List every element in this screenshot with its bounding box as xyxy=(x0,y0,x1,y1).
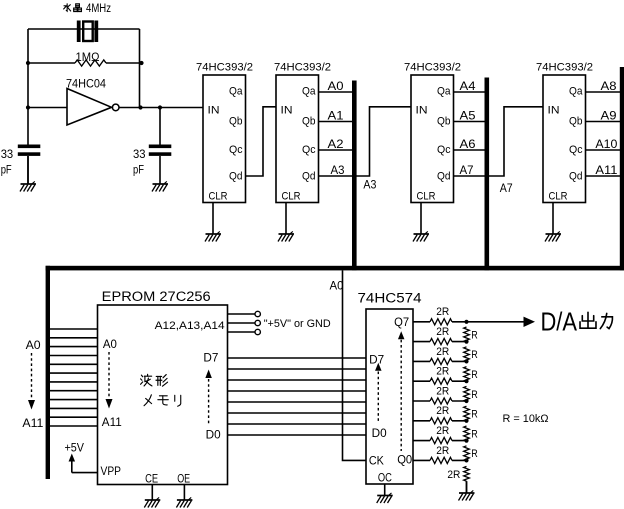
svg-text:Qd: Qd xyxy=(437,170,451,182)
resistor R-6 vertical xyxy=(464,347,470,362)
svg-text:R = 10kΩ: R = 10kΩ xyxy=(503,413,549,425)
wire A12 stub with terminal xyxy=(228,311,261,316)
svg-text:74HC574: 74HC574 xyxy=(358,291,423,306)
wire Q1 to ladder xyxy=(413,440,467,442)
svg-text:CLR: CLR xyxy=(549,191,568,203)
resistor 2R-4 xyxy=(430,378,452,384)
wire A9 U4 Qb to bus xyxy=(586,121,622,123)
svg-text:R: R xyxy=(471,349,478,361)
svg-text:CLR: CLR xyxy=(417,191,436,203)
label メモリ memory xyxy=(144,395,181,406)
arrow D/A output xyxy=(524,317,536,327)
wire A13 stub with terminal xyxy=(228,320,261,325)
svg-text:Q7: Q7 xyxy=(394,317,409,329)
ground counter U2 CLR xyxy=(278,203,294,242)
wire A14 stub with terminal xyxy=(228,329,261,334)
svg-text:A1: A1 xyxy=(328,111,344,123)
svg-text:+5V: +5V xyxy=(65,443,85,455)
wire VPP supply xyxy=(72,472,98,474)
resistor R-3 vertical xyxy=(464,406,470,421)
svg-text:2R: 2R xyxy=(436,326,449,338)
bus bar vertical right A8-A11 xyxy=(620,67,624,270)
svg-text:IN: IN xyxy=(281,105,293,117)
resistor R1 1M ohm xyxy=(75,60,106,66)
wire Q2 to ladder xyxy=(413,420,467,422)
node ladder 1 xyxy=(464,439,468,443)
svg-text:Q0: Q0 xyxy=(397,454,412,466)
svg-text:74HC393/2: 74HC393/2 xyxy=(196,62,253,74)
node ladder 0 xyxy=(464,458,468,462)
wire output branch down xyxy=(159,108,161,146)
svg-text:Qa: Qa xyxy=(229,85,243,97)
svg-text:EPROM 27C256: EPROM 27C256 xyxy=(102,289,211,304)
svg-text:R: R xyxy=(471,409,478,421)
svg-text:Qd: Qd xyxy=(229,170,243,182)
svg-text:Qc: Qc xyxy=(437,144,451,156)
svg-text:R: R xyxy=(471,369,478,381)
svg-text:1MΩ: 1MΩ xyxy=(76,52,100,64)
node junction inverter input xyxy=(26,105,30,109)
wire oscillator top loop xyxy=(28,28,140,30)
arrow A0-A11 EPROM inside xyxy=(106,352,113,409)
svg-text:CE: CE xyxy=(145,474,158,486)
op-amp U2 inverter 74HC04 xyxy=(67,89,119,126)
bus bar vertical 2 A4-A7 xyxy=(485,78,490,271)
svg-text:2R: 2R xyxy=(436,425,449,437)
resistor 2R-3 xyxy=(430,398,452,404)
svg-text:A7: A7 xyxy=(500,183,513,195)
wire A4 U3 Qa to bus xyxy=(454,91,487,93)
svg-text:IN: IN xyxy=(416,105,428,117)
svg-text:Qa: Qa xyxy=(569,85,583,97)
svg-text:A0: A0 xyxy=(328,81,344,93)
svg-text:A5: A5 xyxy=(460,111,476,123)
wire oscillator left rail xyxy=(27,29,29,145)
resistor R-5 vertical xyxy=(464,367,470,382)
wire A11 U4 Qd to bus xyxy=(586,175,622,177)
label D/A output xyxy=(541,306,613,336)
node ladder 6 xyxy=(464,340,468,344)
svg-text:A7: A7 xyxy=(460,165,474,177)
arrow D0-D7 EPROM xyxy=(205,370,212,425)
svg-text:2R: 2R xyxy=(436,405,449,417)
counter U1 74HC393/2 box xyxy=(203,75,246,203)
node junction output a xyxy=(138,105,142,109)
resistor 2R-2 xyxy=(430,418,452,424)
node ladder 5 xyxy=(464,359,468,363)
wire Q5 to ladder xyxy=(413,360,467,362)
ground counter U3 CLR xyxy=(413,203,429,242)
wire Q0 to ladder xyxy=(413,459,467,461)
label 水晶 4MHz xyxy=(64,4,82,12)
ground counter U1 CLR xyxy=(205,203,221,242)
wires data bus D7-D0 xyxy=(228,358,367,435)
node junction right resistor xyxy=(139,61,143,65)
wire A5 U3 Qb to bus xyxy=(454,121,487,123)
svg-text:2R: 2R xyxy=(436,346,449,358)
svg-text:A4: A4 xyxy=(460,81,477,93)
bus bar horizontal address bus xyxy=(46,266,624,271)
svg-text:OC: OC xyxy=(378,472,392,484)
resistor R-7 vertical xyxy=(464,327,470,342)
arrow D0-D7 latch xyxy=(375,363,382,423)
EPROM U5 box xyxy=(98,305,228,485)
svg-text:A3: A3 xyxy=(363,180,376,192)
svg-text:Qb: Qb xyxy=(569,115,583,127)
wire terminator to ground xyxy=(466,481,468,493)
svg-text:R: R xyxy=(471,448,478,460)
crystal X1 4MHz xyxy=(77,21,98,43)
svg-text:D0: D0 xyxy=(372,428,387,440)
ground EPROM CE xyxy=(144,485,160,508)
wire feedback resistor row xyxy=(28,62,142,64)
resistor 2R-1 xyxy=(430,438,452,444)
label C2 33pF xyxy=(133,149,146,176)
svg-text:A12,A13,A14: A12,A13,A14 xyxy=(155,320,225,332)
svg-text:Qc: Qc xyxy=(302,144,316,156)
resistor R-4 vertical xyxy=(464,386,470,401)
svg-text:Qb: Qb xyxy=(437,115,451,127)
svg-text:A8: A8 xyxy=(601,81,617,93)
wire oscillator right rail xyxy=(139,29,141,108)
wire A6 U3 Qc to bus xyxy=(454,149,487,151)
svg-text:IN: IN xyxy=(548,105,560,117)
svg-text:CLR: CLR xyxy=(209,191,228,203)
svg-text:R: R xyxy=(471,389,478,401)
label 波形 memory xyxy=(141,374,168,386)
svg-text:VPP: VPP xyxy=(101,466,122,478)
resistor 2R-7 xyxy=(430,319,452,325)
ground EPROM OE xyxy=(176,485,192,508)
svg-text:D/A: D/A xyxy=(541,306,578,336)
wire U1 Qd to U2 IN xyxy=(246,107,277,176)
svg-text:A3: A3 xyxy=(331,165,345,177)
svg-text:A11: A11 xyxy=(102,417,122,429)
svg-text:Qb: Qb xyxy=(302,115,316,127)
node ladder 3 xyxy=(464,399,468,403)
svg-text:CK: CK xyxy=(369,455,384,467)
ground ladder xyxy=(459,481,475,500)
svg-text:33: 33 xyxy=(1,149,14,161)
resistor 2R-0 xyxy=(430,457,452,463)
node ladder 7 xyxy=(464,320,468,324)
resistor 2R-6 xyxy=(430,339,452,345)
wire A0 bus to CK xyxy=(343,270,367,460)
wire Q7 to ladder xyxy=(413,321,467,323)
node junction output b xyxy=(158,105,162,109)
ground counter U4 CLR xyxy=(545,203,561,242)
svg-text:OE: OE xyxy=(177,474,190,486)
bus bar vertical 1 A0-A3 xyxy=(352,81,357,271)
ground latch U6 xyxy=(377,484,393,503)
svg-text:D0: D0 xyxy=(206,429,221,441)
resistor R-2 vertical xyxy=(464,426,470,441)
resistor R-1 vertical xyxy=(464,446,470,461)
bus bar vertical left to EPROM xyxy=(46,266,50,479)
svg-text:2R: 2R xyxy=(447,469,460,481)
svg-text:CLR: CLR xyxy=(282,191,301,203)
svg-text:"+5V" or GND: "+5V" or GND xyxy=(264,318,331,330)
wire A10 U4 Qc to bus xyxy=(586,149,622,151)
wire inverter input xyxy=(28,107,67,109)
svg-text:33: 33 xyxy=(133,149,146,161)
svg-text:74HC393/2: 74HC393/2 xyxy=(536,62,593,74)
svg-text:2R: 2R xyxy=(436,385,449,397)
svg-text:2R: 2R xyxy=(436,306,449,318)
svg-text:2R: 2R xyxy=(436,445,449,457)
resistor 2R terminator xyxy=(464,466,470,481)
svg-text:R: R xyxy=(471,329,478,341)
svg-text:4MHz: 4MHz xyxy=(86,3,111,15)
wire A3 U2 Qd to U3 IN xyxy=(319,107,412,176)
svg-text:A0: A0 xyxy=(330,281,344,293)
node junction left resistor xyxy=(26,61,30,65)
capacitor C1 33pF left xyxy=(18,145,41,156)
wire inverter output to IN xyxy=(119,107,203,109)
wire C1 to ground xyxy=(27,156,29,184)
svg-text:74HC04: 74HC04 xyxy=(66,79,107,91)
wires address bus A0-A11 to EPROM xyxy=(50,329,98,426)
svg-text:A11: A11 xyxy=(22,418,43,430)
svg-text:A2: A2 xyxy=(328,139,344,151)
wire A1 U2 Qb to bus xyxy=(319,121,355,123)
svg-text:R: R xyxy=(471,428,478,440)
svg-text:pF: pF xyxy=(133,165,144,177)
latch U6 box xyxy=(366,309,413,484)
svg-text:D7: D7 xyxy=(369,354,384,366)
svg-text:Qa: Qa xyxy=(437,85,451,97)
arrow A0-A11 bus left xyxy=(28,353,35,410)
svg-text:Qa: Qa xyxy=(302,85,316,97)
node ladder 2 xyxy=(464,419,468,423)
resistor 2R-5 xyxy=(430,358,452,364)
wire A0 U2 Qa to bus xyxy=(319,91,355,93)
svg-text:Qc: Qc xyxy=(229,144,243,156)
svg-text:A10: A10 xyxy=(595,139,617,151)
counter U3 74HC393/2 box xyxy=(411,75,454,203)
svg-text:A11: A11 xyxy=(595,165,617,177)
svg-text:A6: A6 xyxy=(460,139,476,151)
svg-text:IN: IN xyxy=(208,105,220,117)
svg-text:A0: A0 xyxy=(103,339,117,351)
wire Q3 to ladder xyxy=(413,400,467,402)
arrow Q0-Q7 latch xyxy=(398,331,405,451)
ground C2 xyxy=(152,156,168,192)
wire Q6 to ladder xyxy=(413,341,467,343)
label C1 33pF xyxy=(1,149,14,176)
wire D/A output xyxy=(467,321,525,323)
wire A7 U3 Qd to U4 IN xyxy=(454,107,544,176)
svg-text:Qc: Qc xyxy=(569,144,583,156)
counter U4 74HC393/2 box xyxy=(543,75,586,203)
capacitor C2 33pF right xyxy=(149,145,172,156)
svg-text:74HC393/2: 74HC393/2 xyxy=(274,62,331,74)
svg-text:Qd: Qd xyxy=(302,170,316,182)
svg-text:A0: A0 xyxy=(26,340,41,352)
svg-text:Qb: Qb xyxy=(229,115,243,127)
svg-text:pF: pF xyxy=(1,165,12,177)
wire Q4 to ladder xyxy=(413,380,467,382)
wire A8 U4 Qa to bus xyxy=(586,91,622,93)
node ladder 4 xyxy=(464,379,468,383)
arrow +5V up xyxy=(69,454,76,473)
svg-text:2R: 2R xyxy=(436,366,449,378)
svg-text:D7: D7 xyxy=(203,353,218,365)
wire A2 U2 Qc to bus xyxy=(319,149,355,151)
ground C1 xyxy=(20,156,36,192)
svg-text:74HC393/2: 74HC393/2 xyxy=(404,62,461,74)
counter U2 74HC393/2 box xyxy=(276,75,319,203)
svg-text:Qd: Qd xyxy=(569,170,583,182)
svg-text:A9: A9 xyxy=(601,111,617,123)
